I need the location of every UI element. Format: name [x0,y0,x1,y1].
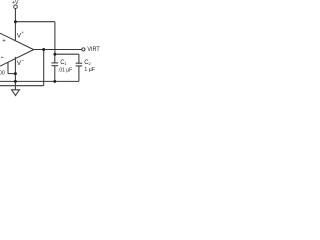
svg-text:.01 µF: .01 µF [58,67,73,73]
svg-text:+V: +V [12,0,19,6]
svg-text:VIRTUAL: VIRTUAL [87,47,100,53]
svg-text:1 µF: 1 µF [84,67,95,73]
svg-text:+: + [2,39,6,45]
svg-text:−: − [21,59,24,64]
svg-text:00: 00 [0,71,5,77]
svg-text:1: 1 [64,61,67,66]
svg-text:+: + [21,30,24,35]
svg-text:2: 2 [89,61,92,66]
